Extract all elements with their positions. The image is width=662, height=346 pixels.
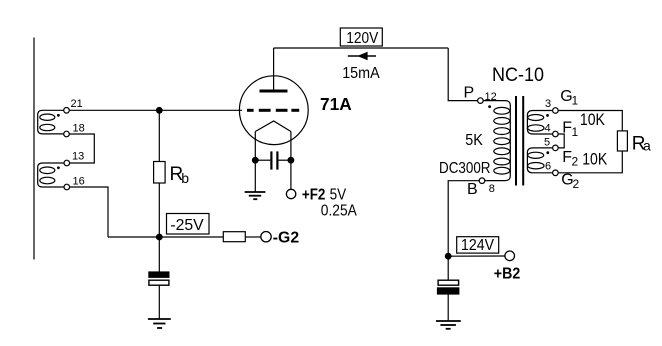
wire: down to transformer P <box>448 48 477 101</box>
phase dot S2 <box>546 151 549 154</box>
label NC-10 <box>492 64 544 86</box>
wire: bias junction to C1 <box>158 237 160 272</box>
label P <box>464 84 475 101</box>
svg-text:B: B <box>467 181 478 198</box>
wire: plate top run <box>274 47 449 49</box>
pin label 4 <box>545 123 551 135</box>
triode 71A envelope <box>239 76 308 145</box>
label F2 <box>562 149 578 169</box>
terminal P (12) <box>478 98 484 104</box>
pin label 21 <box>71 98 83 110</box>
node: grid junction <box>157 108 163 114</box>
wire: junction to B2 terminal <box>448 255 505 257</box>
capacitor C3 <box>438 280 459 294</box>
antenna rail <box>33 38 35 260</box>
current arrow <box>348 52 376 61</box>
wire: filament left to ground <box>254 160 256 191</box>
pin label 12 <box>485 91 497 103</box>
svg-text:+B2: +B2 <box>494 266 520 283</box>
svg-text:0.25A: 0.25A <box>321 203 357 220</box>
filament <box>255 121 291 160</box>
svg-text:5: 5 <box>544 136 550 148</box>
label Ra <box>632 134 651 155</box>
svg-text:4: 4 <box>545 123 551 135</box>
svg-text:3: 3 <box>545 98 551 110</box>
svg-text:71A: 71A <box>320 94 352 114</box>
svg-text:21: 21 <box>71 98 83 110</box>
svg-text:2: 2 <box>573 177 580 191</box>
label 71A <box>320 94 352 114</box>
jumper 4-5 <box>558 134 564 148</box>
terminal -G2 <box>261 232 271 242</box>
coil L2 (pins 13/16) <box>38 163 64 187</box>
svg-text:16: 16 <box>73 175 85 187</box>
value box 124V <box>457 237 499 255</box>
svg-text:15mA: 15mA <box>342 65 380 82</box>
svg-text:6: 6 <box>545 160 551 172</box>
phase dot L1 <box>57 114 60 117</box>
phase dot S1 <box>546 114 549 117</box>
wire: B to B2 rail <box>448 181 479 257</box>
label F1 <box>562 120 578 140</box>
wire: 18 to 13 <box>69 134 94 163</box>
coil L1 (pins 21/18) <box>38 110 64 134</box>
transformer core <box>516 96 523 186</box>
secondary winding S2 (pins 5/6) <box>527 148 553 173</box>
resistor (G2 series) <box>223 232 245 242</box>
node: filament right <box>288 157 294 163</box>
terminal 18 <box>64 131 70 137</box>
pin label 13 <box>72 150 84 162</box>
wire: C1 to ground <box>158 285 160 318</box>
svg-text:NC-10: NC-10 <box>492 64 544 86</box>
svg-text:10K: 10K <box>580 111 605 129</box>
label +B2 <box>494 266 520 283</box>
value box 120V <box>340 28 382 47</box>
terminal B (8) <box>479 178 485 184</box>
svg-text:2: 2 <box>572 155 579 169</box>
svg-text:-25V: -25V <box>170 217 204 234</box>
pin label 18 <box>73 122 85 134</box>
pin label 8 <box>489 183 495 195</box>
node: filament left <box>253 157 259 163</box>
capacitor C1 <box>149 272 169 285</box>
terminal 13 <box>64 160 70 166</box>
svg-text:-G2: -G2 <box>273 229 299 246</box>
ground (B2) <box>436 321 461 329</box>
label G2 <box>561 172 579 192</box>
capacitor C2 (filament bypass) <box>255 151 291 169</box>
wire: junction to C3 <box>447 256 449 280</box>
label 15mA <box>342 65 380 82</box>
terminal +F2 <box>286 189 295 198</box>
primary winding <box>483 101 510 181</box>
wire: 16 down to bias rail <box>70 187 108 237</box>
svg-text:+F2: +F2 <box>302 187 326 204</box>
svg-text:10K: 10K <box>582 151 607 169</box>
resistor Ra <box>617 131 627 151</box>
label +F2 5V <box>302 187 347 204</box>
ground (bias) <box>148 319 171 328</box>
terminal 21 <box>64 108 70 114</box>
secondary winding S1 (pins 3/4) <box>527 111 553 135</box>
wire: resistor to G2 terminal <box>245 236 260 238</box>
terminal 4 <box>553 131 559 137</box>
svg-text:5V: 5V <box>330 187 347 204</box>
pin label 6 <box>545 160 551 172</box>
terminal 3 <box>553 108 559 114</box>
label 0.25A <box>321 203 357 220</box>
grid (dashed) <box>247 109 299 112</box>
label B <box>467 181 478 198</box>
svg-text:13: 13 <box>72 150 84 162</box>
svg-text:P: P <box>464 84 475 101</box>
terminal +B2 <box>505 251 515 261</box>
ground (filament) <box>245 192 266 199</box>
svg-text:a: a <box>643 138 651 154</box>
svg-text:1: 1 <box>572 125 579 139</box>
wire: Rb to bias rail <box>158 183 160 237</box>
resistor Rb <box>154 162 166 184</box>
wire: junction to Rb <box>158 110 160 161</box>
anode lead <box>273 48 275 90</box>
svg-text:1: 1 <box>572 94 579 108</box>
pin label 3 <box>545 98 551 110</box>
label G1 <box>560 88 578 108</box>
wire: 21 to grid <box>69 109 242 111</box>
wire: bias rail <box>108 236 223 238</box>
value box -25V <box>167 214 210 235</box>
anode plate <box>260 90 288 93</box>
wire: Ra to 6 <box>558 151 622 173</box>
wire: C3 to ground <box>447 294 449 320</box>
terminal 6 <box>553 170 559 176</box>
terminal 16 <box>64 184 70 190</box>
label -G2 <box>273 229 299 246</box>
label DC300R <box>439 160 491 177</box>
label 10K lower <box>582 151 607 169</box>
svg-text:8: 8 <box>489 183 495 195</box>
pin label 5 <box>544 136 550 148</box>
svg-text:120V: 120V <box>346 30 378 47</box>
svg-text:124V: 124V <box>461 237 494 254</box>
svg-text:5K: 5K <box>465 132 483 149</box>
label 10K upper <box>580 111 605 129</box>
label 5K <box>465 132 483 149</box>
label Rb <box>170 164 190 186</box>
phase dot primary <box>488 105 491 108</box>
svg-text:DC300R: DC300R <box>439 160 491 177</box>
svg-text:18: 18 <box>73 122 85 134</box>
phase dot L2 <box>57 166 60 169</box>
svg-text:b: b <box>181 170 189 186</box>
pin label 16 <box>73 175 85 187</box>
node: B2 junction <box>445 253 451 259</box>
node: bias junction <box>157 234 163 240</box>
terminal 5 <box>553 145 559 151</box>
wire: 3 to Ra <box>558 111 622 131</box>
wire: filament right to F2 terminal <box>290 160 292 189</box>
